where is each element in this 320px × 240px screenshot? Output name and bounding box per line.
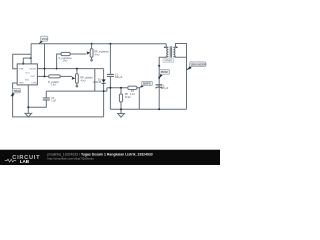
label D1: [93, 78, 102, 84]
label C3: [161, 84, 169, 90]
potentiometer RP2: [76, 74, 79, 83]
resistor R2: [49, 75, 61, 78]
junction rail B / C1 bottom: [109, 87, 111, 89]
label R1: [59, 57, 72, 63]
node PRIM flag attach: [158, 77, 160, 79]
wire top rail: [31, 43, 166, 45]
resistor R5: [120, 88, 122, 94]
svg-text:4 kΩ: 4 kΩ: [81, 79, 86, 82]
wire rail D bottom: [110, 108, 186, 110]
wire left loop top (THR pin): [13, 54, 31, 68]
wiper arrow RP1: [87, 51, 91, 54]
svg-text:470 µF: 470 µF: [161, 87, 169, 90]
junction rail D / primary bottom: [158, 108, 160, 110]
U1 pin labels: [19, 69, 38, 85]
junction RST bracket / VCC vertical: [30, 57, 32, 59]
junction top rail / RP1 top: [91, 43, 93, 45]
ground R5: [118, 114, 125, 118]
label RP1: [94, 51, 109, 57]
svg-text:OUT: OUT: [30, 76, 35, 78]
label RP2: [80, 77, 93, 83]
wire primary top: [166, 44, 168, 48]
flag SEKUNDER right: [186, 62, 206, 71]
diode D1: [102, 79, 106, 83]
flag SMPS rail B: [139, 81, 152, 88]
svg-text:THR: THR: [19, 69, 24, 71]
label C1: [115, 73, 123, 79]
wire left loop bottom (TRG pin to bottom rail): [13, 83, 104, 117]
svg-text:CTRL: CTRL: [31, 83, 37, 85]
IC U1 555 timer: [17, 64, 38, 85]
wire 555 GND pin down: [27, 85, 29, 114]
label R2: [48, 81, 59, 87]
wire VCC vertical to 555: [30, 44, 32, 64]
junction DISCH rail / RP2 top: [76, 68, 78, 70]
svg-text:LAB: LAB: [20, 159, 30, 164]
capacitor C3 polarized: [155, 85, 162, 88]
resistor R1: [61, 52, 70, 55]
diode D1 branch: [103, 69, 105, 117]
label C2: [51, 97, 56, 103]
resistor R4: [128, 86, 137, 89]
svg-text:1N4148: 1N4148: [93, 81, 102, 84]
wire parallel branch left of D1: [94, 69, 96, 92]
wire R1 feed: [57, 54, 61, 69]
watermark text: [47, 152, 153, 160]
capacitor C1: [109, 44, 111, 75]
junction rail D / R5 ground: [120, 108, 122, 110]
node primary bottom wire dot: [158, 65, 160, 67]
flag TRIG left: [10, 88, 20, 96]
wire OUT pin: [37, 75, 48, 77]
svg-text:4 kΩ: 4 kΩ: [95, 53, 100, 56]
wire secondary bottom: [173, 56, 186, 59]
junction top rail / C1 top: [109, 43, 111, 45]
wire rail C (C2 to diode node): [46, 88, 107, 91]
label R4: [130, 90, 135, 96]
svg-text:TRIG: TRIG: [13, 89, 20, 93]
wire rail B: [107, 87, 128, 89]
node RST pin dot: [22, 63, 24, 65]
svg-text:SMPS: SMPS: [143, 82, 151, 86]
svg-text:100 µF: 100 µF: [115, 76, 123, 79]
wire vertical A: [44, 44, 46, 77]
svg-text:SEKUNDER: SEKUNDER: [191, 62, 207, 66]
junction rail B / R5 top: [120, 87, 122, 89]
wire bracket RST to VCC: [23, 58, 31, 64]
wire DISCH rail: [37, 68, 103, 70]
junction OUT wire / vertical A: [44, 75, 46, 77]
transformer XFMR1 windings: [167, 47, 169, 57]
ground 555: [25, 113, 32, 117]
svg-text:1 µF: 1 µF: [51, 100, 56, 103]
wire primary bottom: [159, 57, 168, 110]
wiper arrow RP2: [72, 77, 76, 80]
potentiometer RP1: [90, 49, 93, 57]
transformer phase dot primary: [164, 47, 166, 49]
junction rail C / D1 cathode: [103, 90, 105, 92]
logo CircuitLab: [5, 155, 40, 164]
watermark bar: [0, 150, 220, 165]
junction GND wire / C2 branch: [27, 106, 29, 108]
svg-text:1 kΩ: 1 kΩ: [51, 84, 56, 87]
svg-text:1 kΩ: 1 kΩ: [62, 60, 67, 63]
junction DISCH rail / R1 feed: [56, 68, 58, 70]
capacitor C2: [43, 98, 50, 100]
label R5: [125, 93, 132, 99]
wire secondary top: [173, 44, 186, 110]
junction DISCH rail / vertical A: [44, 68, 46, 70]
svg-text:TRG: TRG: [19, 83, 24, 85]
svg-text:10 kΩ: 10 kΩ: [125, 96, 132, 99]
svg-text:PRIM: PRIM: [161, 70, 169, 74]
flag VCC top: [39, 36, 49, 44]
svg-text:DISCH: DISCH: [29, 69, 36, 71]
wire GND branch to C2: [28, 100, 46, 107]
node TRIG flag attach: [12, 95, 14, 97]
svg-text:VCC: VCC: [42, 37, 49, 41]
transformer core: [170, 46, 171, 57]
flag PRIM primary node: [159, 70, 170, 79]
transformer phase dot secondary: [176, 47, 178, 49]
svg-text:VCO: VCO: [25, 72, 30, 74]
svg-text:http://circuitlab.com/c6qx7Qd5: http://circuitlab.com/c6qx7Qd5wvju: [47, 156, 94, 160]
label XFMR1: [163, 59, 174, 63]
svg-text:XFMR1: XFMR1: [164, 60, 173, 63]
